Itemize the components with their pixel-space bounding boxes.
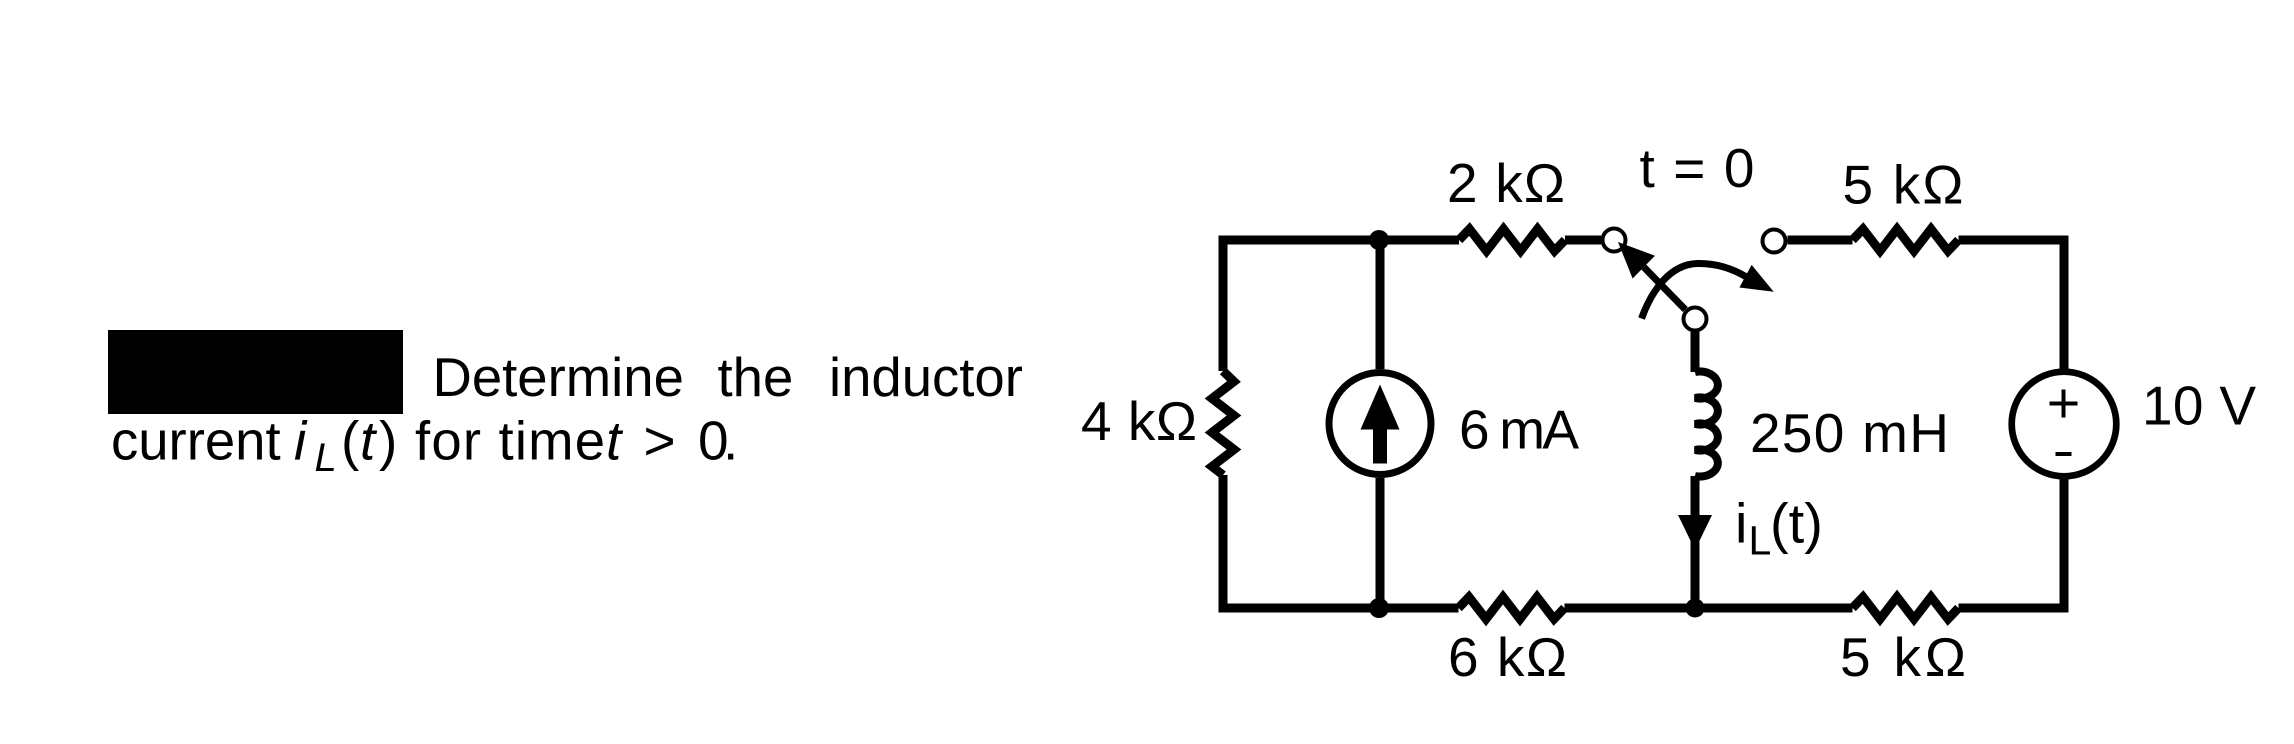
svg-text:t>0.: t>0. [606, 410, 738, 472]
resistor R 5k top zigzag [1853, 229, 1959, 251]
svg-text:t = 0: t = 0 [1640, 137, 1755, 199]
wire current source branch top [1376, 240, 1385, 369]
wire inductor branch bottom lead [1691, 476, 1700, 608]
svg-text:250 mH: 250 mH [1750, 402, 1949, 464]
svg-text:10 V: 10 V [2142, 375, 2256, 437]
svg-text:6 kΩ: 6 kΩ [1448, 626, 1567, 688]
switch blade line [1644, 267, 1686, 310]
switch left contact circle [1603, 229, 1626, 252]
svg-text:5 kΩ: 5 kΩ [1840, 626, 1966, 688]
voltage source minus sign [2056, 452, 2072, 456]
wire top-left segment with left rail corner [1223, 240, 1459, 371]
svg-text:the: the [718, 347, 794, 408]
switch motion arc arrowhead [1739, 265, 1773, 292]
svg-text:inductor: inductor [829, 347, 1023, 408]
current source arrow [1361, 385, 1400, 430]
junction node bottom middle [1686, 599, 1705, 618]
junction node bottom left [1369, 598, 1389, 618]
voltage source V1 circle [2012, 372, 2117, 477]
wire bottom middle segment [1565, 604, 1853, 613]
wire voltage source bottom + bottom-right corner [1959, 479, 2065, 608]
svg-text:6 mA: 6 mA [1459, 399, 1579, 461]
inductor L coil 250mH [1695, 372, 1718, 477]
resistor R 4k zigzag (vertical) [1212, 371, 1234, 475]
wire current source branch bottom [1376, 478, 1385, 608]
svg-text:Determine: Determine [433, 347, 684, 408]
resistor R 6k zigzag [1459, 597, 1565, 619]
voltage source plus sign [2050, 390, 2078, 418]
switch pole contact circle [1684, 308, 1707, 331]
svg-text:for time: for time [415, 411, 605, 472]
svg-text:2 kΩ: 2 kΩ [1447, 152, 1565, 214]
resistor R 5k bottom zigzag [1853, 597, 1959, 619]
switch blade arrowhead [1618, 242, 1655, 279]
current arrow on inductor wire [1678, 515, 1712, 550]
svg-text:iL(t): iL(t) [1735, 492, 1823, 564]
wire inductor branch top lead [1691, 332, 1700, 372]
svg-text:5 kΩ: 5 kΩ [1843, 154, 1964, 216]
switch motion arc [1642, 263, 1747, 318]
wire top-right corner into voltage source [1959, 240, 2065, 369]
switch right contact circle [1763, 230, 1786, 253]
junction node top [1369, 230, 1389, 250]
current source I1 circle [1329, 373, 1431, 475]
resistor R 2k zigzag [1459, 229, 1565, 251]
svg-text:iL(t): iL(t) [294, 410, 397, 481]
redaction box [108, 330, 403, 414]
svg-text:current: current [111, 411, 281, 472]
wire resistor2k to switch left contact [1565, 236, 1601, 245]
wire switch right contact to resistor 5k top [1788, 236, 1853, 245]
wire left rail lower + bottom-left corner [1223, 475, 1459, 608]
svg-text:4 kΩ: 4 kΩ [1081, 390, 1197, 452]
